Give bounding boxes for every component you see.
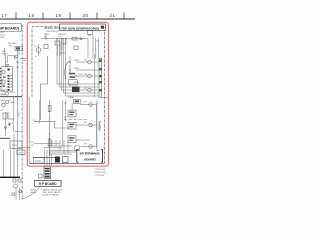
svg-text:TDP OSW GENERATOR(S): TDP OSW GENERATOR(S) [61,26,99,30]
svg-text:20: 20 [83,13,89,18]
svg-text:LISTED IN TABLE: LISTED IN TABLE [42,194,59,197]
svg-text:2x: 2x [35,56,37,58]
svg-text:(2SC1815)x2: (2SC1815)x2 [46,31,60,33]
svg-text:MUTE: MUTE [2,53,8,55]
svg-text:MCZ601 MUTE: MCZ601 MUTE [44,27,61,30]
svg-text:17: 17 [2,13,8,18]
svg-text:SP TERMINAL: SP TERMINAL [80,152,101,156]
svg-text:1k: 1k [44,36,46,38]
svg-text:TP601: TP601 [12,145,19,147]
svg-text:H P BOARD: H P BOARD [39,182,58,186]
svg-text:CN604-6: CN604-6 [98,120,101,131]
svg-text:10u: 10u [58,36,61,38]
svg-text:18: 18 [29,13,35,18]
svg-text:BOARD: BOARD [84,157,96,161]
svg-text:AMP BOARD]: AMP BOARD] [0,26,19,30]
svg-text:REC: REC [1,37,6,39]
svg-text:ONLY SPEC PARTS: ONLY SPEC PARTS [42,191,61,194]
svg-text:P.AMP: P.AMP [68,96,75,99]
svg-text:RY601: RY601 [35,161,42,163]
svg-text:L.CH: L.CH [1,90,6,92]
svg-text:GND: GND [1,100,6,102]
svg-text:* R721 0.5W: * R721 0.5W [94,172,105,174]
svg-text:* R720 0.5W: * R720 0.5W [94,169,105,171]
svg-text:SP.R: SP.R [1,95,6,97]
svg-text:MARK: MARK [31,191,37,194]
svg-text:SW: SW [9,45,12,47]
svg-text:19: 19 [56,13,62,18]
svg-text:* : SAFETY PARTS USE: * : SAFETY PARTS USE [40,188,63,191]
svg-text:21: 21 [110,13,116,18]
svg-text:* C720 50V: * C720 50V [94,175,105,177]
